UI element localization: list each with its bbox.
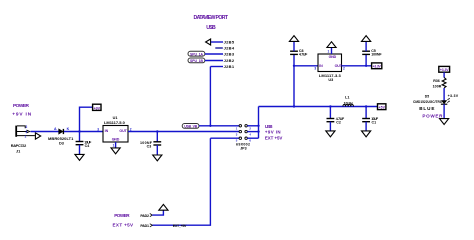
- wire EXT +5V vertical: [152, 138, 210, 225]
- wire U1 OUT to JP3 row2: [128, 131, 239, 133]
- wire +5V bus horizontal: [259, 106, 378, 108]
- wire PAD2 to ground: [152, 210, 163, 215]
- wire U3 OUT to +3.3V label: [342, 65, 372, 67]
- wire pin B3: [205, 53, 223, 55]
- wire +9V stub: [80, 107, 93, 131]
- svg-text:C2: C2: [336, 121, 341, 125]
- resistor R36: [442, 78, 446, 89]
- ground (J1 sleeve, pointing right): [35, 133, 40, 139]
- wire pin B5: [211, 41, 223, 43]
- net label box +5V (bus end): [378, 104, 386, 110]
- capacitor C5: [362, 51, 370, 54]
- wire U3 branch vertical: [293, 54, 295, 106]
- capacitor C8: [290, 51, 298, 54]
- header JP3: [239, 125, 247, 140]
- svg-text:J2B2: J2B2: [224, 58, 235, 63]
- svg-text:SPU_1B: SPU_1B: [190, 59, 204, 63]
- wire JP3 right stubs: [247, 126, 258, 138]
- svg-text:100R: 100R: [433, 85, 442, 89]
- ground (PAD2, pointing up): [159, 204, 168, 210]
- svg-text:100NF: 100NF: [371, 53, 382, 57]
- svg-text:POWER: POWER: [13, 103, 30, 109]
- svg-text:L1: L1: [345, 96, 349, 100]
- wire R36 to LED: [443, 88, 445, 101]
- svg-text:2: 2: [26, 125, 28, 129]
- svg-text:R36: R36: [433, 79, 440, 83]
- svg-text:D5: D5: [425, 95, 429, 99]
- svg-text:POWER: POWER: [422, 113, 443, 118]
- svg-text:PAD2: PAD2: [140, 214, 149, 218]
- svg-text:J1: J1: [16, 150, 20, 154]
- svg-text:BLUE: BLUE: [419, 106, 434, 111]
- net label box +3.3V (U3 out): [372, 63, 382, 69]
- svg-text:PAD1: PAD1: [140, 224, 149, 228]
- ground (C8, pointing up): [289, 36, 298, 42]
- svg-text:C1: C1: [372, 121, 377, 125]
- wire C8 to ground: [293, 42, 295, 52]
- capacitor C2: [327, 119, 335, 122]
- wire pin B2: [205, 60, 223, 62]
- wire C4 drop: [79, 132, 81, 142]
- connector J1 barrel jack: [16, 126, 35, 137]
- svg-text:J2B5: J2B5: [224, 40, 235, 45]
- capacitor C3: [153, 142, 161, 145]
- ground (D5): [440, 119, 449, 125]
- svg-text:MBR0520LT1: MBR0520LT1: [48, 136, 74, 141]
- wire LED to ground: [443, 104, 445, 118]
- net flag SPU_1B: [188, 58, 205, 63]
- svg-text:3: 3: [26, 130, 28, 134]
- wire C1 to ground: [365, 122, 367, 131]
- wire row1 (USB net): [199, 125, 239, 127]
- svg-text:C4: C4: [85, 144, 90, 148]
- ground (shield, pin B5, pointing left): [206, 39, 211, 45]
- svg-text:GND: GND: [329, 55, 337, 59]
- wire +5V bus vertical: [258, 107, 260, 139]
- wire C3 to ground: [156, 145, 158, 155]
- svg-text:3: 3: [97, 128, 99, 132]
- junction (+9V stub / C4): [78, 130, 80, 132]
- svg-text:GND: GND: [112, 137, 120, 141]
- ground (C1): [362, 131, 371, 137]
- wire row3 to JP3: [210, 137, 239, 139]
- wire C5 drop: [365, 54, 367, 65]
- svg-text:K: K: [67, 127, 70, 131]
- junction (C5): [365, 65, 367, 67]
- svg-text:J2B3: J2B3: [224, 52, 235, 57]
- svg-text:CMD1522UGC/TR8: CMD1522UGC/TR8: [413, 100, 442, 104]
- svg-text:IN: IN: [105, 129, 109, 133]
- regulator U3: [318, 54, 343, 72]
- wire C2 drop: [329, 107, 331, 119]
- svg-text:J2B1: J2B1: [224, 64, 235, 69]
- LED D5: [441, 99, 450, 105]
- svg-text:1: 1: [328, 49, 330, 53]
- wire pin B1: [210, 66, 223, 68]
- svg-text:LM1117-5.0: LM1117-5.0: [104, 120, 126, 125]
- capacitor C4: [76, 142, 84, 145]
- wire D3 to U1: [64, 131, 103, 133]
- svg-text:1: 1: [113, 143, 115, 147]
- wire bus to U3 IN: [294, 65, 318, 67]
- wire J1 to D3: [31, 131, 59, 133]
- net flag USB_VB: [182, 124, 199, 129]
- svg-text:+3.3V: +3.3V: [440, 68, 449, 72]
- svg-text:1: 1: [25, 135, 27, 139]
- wire pin B4 stub: [215, 47, 223, 49]
- svg-text:RAPC722: RAPC722: [11, 144, 27, 148]
- wire C5 to ground: [365, 42, 367, 52]
- ground (C3): [153, 155, 162, 161]
- ground (C5, pointing up): [362, 36, 371, 42]
- net flag SPU_1A: [188, 51, 205, 56]
- junction (C3): [156, 130, 158, 132]
- svg-text:+9V IN: +9V IN: [12, 112, 32, 118]
- pad PAD2: [140, 214, 152, 218]
- svg-text:IN: IN: [319, 64, 323, 68]
- svg-text:A: A: [54, 127, 57, 131]
- svg-text:JP3: JP3: [240, 147, 246, 151]
- svg-text:EXT_+5V: EXT_+5V: [173, 224, 187, 228]
- junction (bus/U3 branch): [293, 105, 295, 107]
- regulator U1: [103, 126, 128, 143]
- svg-text:EXT +5V: EXT +5V: [113, 223, 135, 228]
- svg-text:U3: U3: [328, 78, 333, 82]
- svg-text:+5V: +5V: [379, 106, 386, 110]
- svg-text:+3.3V: +3.3V: [373, 65, 382, 69]
- svg-text:D3: D3: [59, 142, 64, 146]
- wire +3.3V to R36: [443, 72, 445, 77]
- diode D3: [59, 129, 64, 134]
- wire U3 GND stub: [331, 48, 333, 54]
- svg-text:USB_VB: USB_VB: [184, 125, 198, 129]
- pad PAD1: [140, 224, 152, 228]
- junction (bus/row1): [257, 125, 259, 127]
- junction (C1): [365, 105, 367, 107]
- svg-text:4.7UF: 4.7UF: [299, 53, 308, 57]
- svg-text:EXT +5V: EXT +5V: [265, 135, 282, 140]
- svg-text:SPU_1A: SPU_1A: [190, 52, 204, 56]
- net label box +9V: [93, 104, 101, 110]
- junction (VBUS / row1): [209, 125, 211, 127]
- wire C3 drop: [156, 132, 158, 142]
- ground (U1): [111, 148, 120, 154]
- svg-text:+9V IN: +9V IN: [265, 130, 281, 135]
- wire U1 GND stub: [115, 142, 117, 148]
- svg-text:USB: USB: [206, 25, 216, 31]
- svg-text:POWER: POWER: [114, 213, 130, 218]
- wire C4 to ground: [79, 145, 81, 155]
- svg-text:DATAVIEW PORT: DATAVIEW PORT: [194, 15, 229, 21]
- junction (IN wire/branch): [293, 65, 295, 67]
- svg-text:3: 3: [314, 67, 316, 71]
- ground (C2): [326, 131, 335, 137]
- junction (bus/row2): [257, 130, 259, 132]
- ground (U3, pointing up): [327, 42, 336, 48]
- net label box +3.3V (LED top): [439, 66, 450, 72]
- svg-text:+3.3V: +3.3V: [448, 94, 459, 98]
- ground (C4): [75, 154, 84, 160]
- svg-text:OUT: OUT: [119, 129, 127, 133]
- wire C2 to ground: [329, 122, 331, 131]
- svg-text:C3: C3: [147, 145, 152, 149]
- capacitor C1: [362, 119, 370, 122]
- junction (C2): [329, 105, 331, 107]
- svg-text:USB: USB: [265, 124, 273, 129]
- svg-text:2: 2: [343, 67, 345, 71]
- inductor L1: [343, 104, 354, 106]
- svg-text:+9V: +9V: [94, 106, 101, 110]
- svg-text:10UH: 10UH: [344, 102, 353, 106]
- svg-text:J2B4: J2B4: [224, 46, 235, 51]
- wire C1 drop: [365, 107, 367, 119]
- wire USB VBUS vertical: [209, 67, 211, 126]
